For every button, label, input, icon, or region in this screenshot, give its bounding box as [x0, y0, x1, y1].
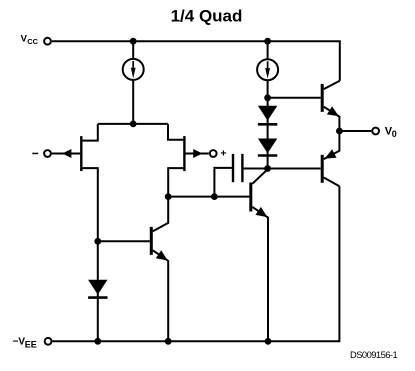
- junction top rail I1: [130, 38, 137, 45]
- node inverting input terminal: [44, 150, 51, 157]
- wire VO: [339, 130, 371, 132]
- junction tail: [130, 121, 137, 128]
- junction capacitor tap: [211, 193, 218, 200]
- wire diode D3 branch: [97, 241, 99, 341]
- wire diode string: [267, 98, 269, 169]
- wire Q3 base: [268, 97, 321, 99]
- svg-text:−V: −V: [13, 337, 26, 348]
- wire diff pair tail: [98, 123, 168, 125]
- junction VEE rail Q2 emitter: [265, 338, 272, 345]
- junction top rail I2: [264, 38, 271, 45]
- node VO terminal: [372, 128, 379, 135]
- wire capacitor right branch: [244, 168, 268, 170]
- wire node line second stage base: [168, 196, 249, 198]
- current source I2: [257, 59, 278, 80]
- svg-text:CC: CC: [27, 37, 38, 46]
- svg-text:EE: EE: [25, 340, 37, 350]
- label VO: [385, 126, 397, 140]
- junction VEE rail Q1 emitter: [165, 338, 172, 345]
- wire current source I2 bottom: [267, 80, 269, 98]
- transistor Q2 (NPN second stage): [251, 169, 268, 341]
- label -VEE: [13, 337, 37, 350]
- junction Q1 base / D3: [94, 238, 101, 245]
- wire current source I2 top: [267, 41, 269, 59]
- capacitor C1: [233, 154, 242, 182]
- junction diode top / Q3 base: [264, 94, 271, 101]
- wire capacitor left branch: [214, 168, 232, 197]
- junction diode bottom / Q4 base: [264, 165, 271, 172]
- junction J2 drain / Q1 collector: [165, 193, 172, 200]
- wire Q1 base: [98, 240, 150, 242]
- transistor Q4 (PNP output bottom): [322, 131, 339, 186]
- transistor Q1 (NPN gain stage): [151, 197, 168, 342]
- diode D3: [88, 280, 107, 298]
- node non-inverting input terminal: [210, 150, 217, 157]
- svg-text:DS009156-1: DS009156-1: [350, 349, 397, 360]
- -VEE terminal: [45, 338, 52, 345]
- current source I1: [123, 59, 144, 80]
- wire current source I1 top: [132, 41, 134, 59]
- label minus: [32, 153, 38, 155]
- wire -VEE rail: [53, 186, 340, 341]
- svg-text:1/4 Quad: 1/4 Quad: [171, 6, 243, 25]
- JFET J2 (non-inverting input): [168, 124, 209, 197]
- wire Q4 base: [268, 168, 321, 170]
- svg-text:0: 0: [392, 129, 397, 139]
- node VO junction: [336, 128, 343, 135]
- transistor Q3 (NPN output top): [322, 81, 340, 131]
- diode D1: [258, 106, 277, 125]
- junction VEE rail D3: [94, 338, 101, 345]
- wire current source I1 bottom: [132, 80, 134, 124]
- JFET J1 (inverting input): [52, 124, 98, 241]
- diode D2: [258, 139, 277, 156]
- VCC terminal: [44, 38, 51, 45]
- VCC label: [21, 33, 39, 46]
- svg-text:+: +: [220, 148, 226, 160]
- wire VCC rail: [52, 41, 340, 80]
